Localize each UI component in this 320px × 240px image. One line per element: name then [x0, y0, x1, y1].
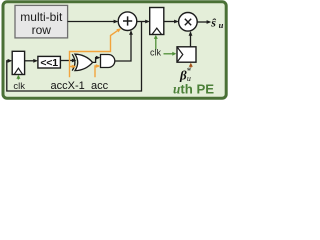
svg-text:acc: acc [91, 80, 109, 92]
svg-text:accX-1: accX-1 [51, 80, 85, 92]
svg-text:uth PE: uth PE [173, 82, 214, 97]
svg-text:multi-bit: multi-bit [20, 10, 63, 24]
svg-text:ŝ: ŝ [210, 15, 216, 29]
svg-text:row: row [32, 23, 52, 37]
svg-text:clk: clk [13, 81, 25, 92]
svg-text:<<1: <<1 [40, 57, 58, 69]
svg-text:u: u [219, 20, 224, 30]
svg-text:β: β [179, 68, 187, 83]
svg-text:clk: clk [150, 48, 161, 58]
